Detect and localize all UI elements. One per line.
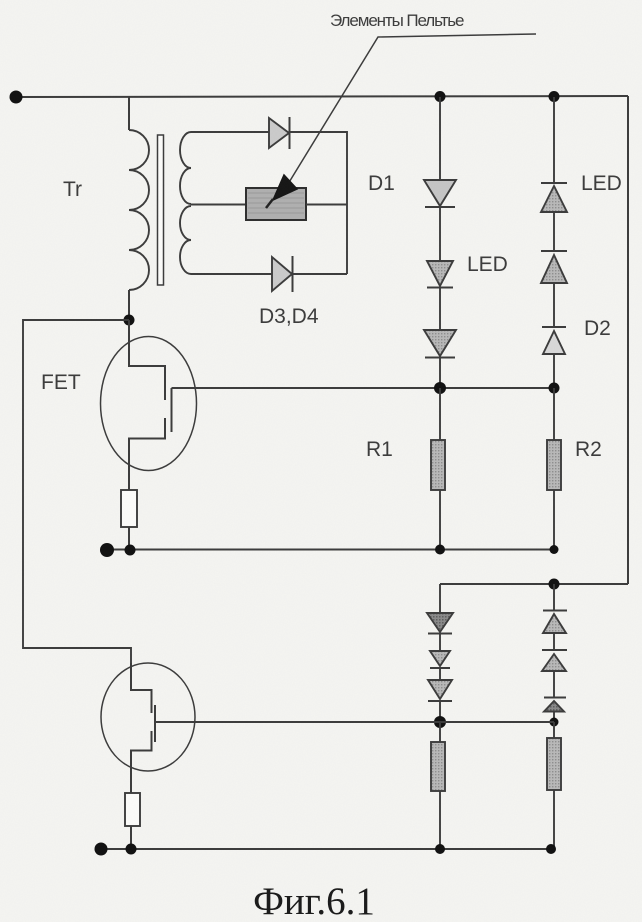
wire: primary top lead (128, 97, 130, 130)
LED V6 (427, 613, 453, 632)
transistor FET1 (101, 337, 197, 471)
transformer Tr primary winding (129, 130, 149, 290)
wire: D1 to right corner (290, 132, 347, 274)
wire: FET2 gate row (155, 721, 554, 723)
diode D2 (542, 326, 566, 328)
resistor R3 (lower left) (439, 722, 441, 742)
resistor: FET2 source resistor (125, 793, 140, 826)
LED V5 (541, 250, 567, 252)
LED V11 (544, 697, 566, 699)
node: R1 bottom junction (435, 545, 445, 555)
node: column1 gate row junction (434, 382, 446, 394)
wire: lower LED string 2 top lead (553, 584, 555, 610)
node: R2 bottom junction (550, 545, 559, 554)
wire: lower section bottom bus (101, 848, 552, 850)
svg-text:Фиг.6.1: Фиг.6.1 (253, 880, 375, 922)
node: column2 gate row junction (549, 383, 560, 394)
wire: right edge vertical from top bus to lower section bus (627, 96, 629, 584)
node: R4 bottom junction (546, 844, 556, 854)
wire: upper section bottom bus (107, 549, 554, 551)
wire: secondary bottom to D3,D4 (191, 273, 272, 275)
node: FET1 drain / feedback junction (124, 315, 135, 326)
wire: FET1 gate row to LED nodes (172, 387, 555, 389)
node: FET1 source junction (125, 545, 136, 556)
node: lower column2 gate row junction (550, 718, 559, 727)
node: left input terminal (10, 91, 23, 104)
leader arrow to Peltier (288, 34, 536, 184)
wire: secondary center tap to Peltier (191, 204, 246, 206)
resistor R1 (439, 388, 441, 440)
node: R3 bottom junction (435, 844, 445, 854)
resistor: FET1 source resistor (121, 490, 137, 527)
LED V2 (427, 261, 453, 286)
LED V8 (428, 680, 452, 699)
resistor R4 (lower right) (553, 722, 555, 738)
wire: LED string 2 top lead (553, 97, 555, 183)
transformer Tr secondary winding (180, 132, 191, 204)
wire: resistor to bottom bus (128, 527, 130, 550)
transformer Tr core (158, 135, 164, 285)
node: FET2 source junction (126, 844, 137, 855)
node: lower column1 gate row junction (434, 716, 446, 728)
node: bottom bus left terminal (100, 543, 114, 557)
node: lower bus left terminal (95, 843, 108, 856)
node: lower bus / column2 junction (549, 579, 560, 590)
wire: LED string 1 top lead (439, 97, 441, 180)
LED V9 (543, 610, 567, 612)
wire: primary bottom to drain node (128, 290, 130, 320)
wire: top supply bus (15, 96, 628, 97)
node: top bus / LED column 1 junction (435, 91, 446, 102)
Peltier element PE (246, 188, 306, 220)
LED V3 (424, 330, 456, 356)
paper noise (0, 0, 1, 1)
LED V10 (542, 649, 567, 651)
resistor R2 (553, 388, 555, 440)
wire: feedback from node to lower FET (23, 320, 131, 663)
wire: secondary top to D1 (191, 131, 269, 133)
node: top bus / LED column 2 junction (549, 91, 560, 102)
LED V4 (541, 182, 567, 184)
LED V7 (430, 651, 450, 666)
diode D1 (269, 118, 289, 148)
diode D3,D4 (272, 257, 292, 291)
LED V1 (424, 180, 456, 206)
transistor FET2 (101, 663, 195, 771)
wire: lower LED string 1 top lead (439, 584, 441, 613)
wire: lower section top bus (440, 583, 628, 585)
wire: Peltier to right vertical (306, 204, 347, 206)
